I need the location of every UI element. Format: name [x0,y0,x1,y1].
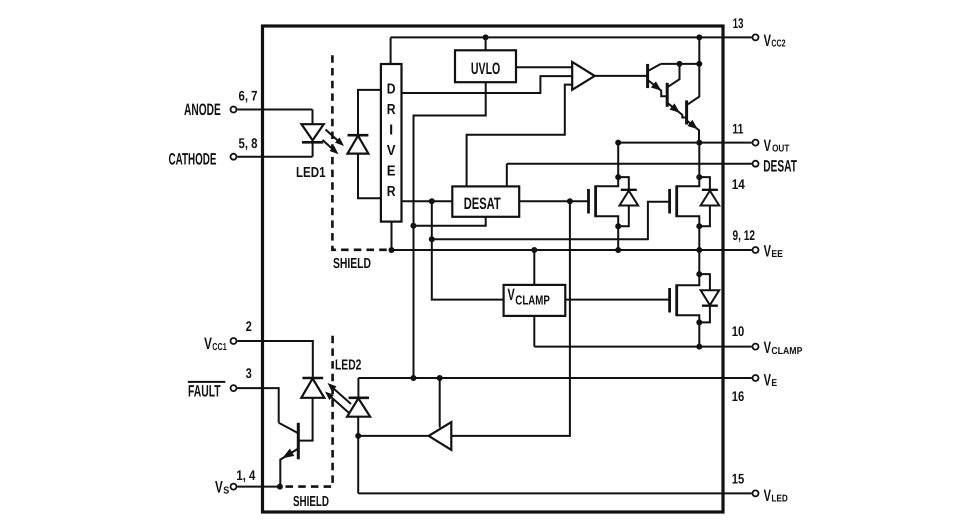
mosfet M2 [668,189,671,214]
node VE buffer2 tee [437,375,443,381]
pin VCC1 wire [237,341,312,378]
mosfet M1 [587,189,590,214]
node M2 drain [696,174,702,180]
photodiode PD2 [302,377,323,380]
svg-text:DESAT: DESAT [464,195,501,213]
svg-text:V: V [508,286,515,304]
wire VCLAMP out to M3 gate [565,299,669,301]
svg-text:V: V [764,32,771,50]
wire M1 source to VEE [617,226,619,250]
buffer U3 triangle [429,422,452,450]
svg-text:1, 4: 1, 4 [236,467,255,483]
wire VCC2 rail [391,36,752,38]
wire VCLAMP bottom riser [533,316,535,347]
buffer U2 triangle [572,62,595,90]
svg-text:D: D [387,82,396,98]
outer border frame [263,26,724,512]
svg-text:LED2: LED2 [335,358,361,374]
wire driver to buffer [402,76,573,93]
pin CATHODE wire [237,156,312,158]
LED2 light arrow 2 [331,397,349,413]
node collector rail A [677,61,683,67]
wire gate node long vertical to buffer2 [451,201,570,436]
wire VE to buffer2 top [439,378,441,428]
wire driver bottom riser [391,222,393,250]
wire buffer2 output to LED2 anode [358,435,429,437]
transistor Q2 [646,64,649,88]
LED2 [349,396,369,399]
pin 6,7 ANODE terminal [231,107,237,113]
node DESAT bottom tee [410,223,416,229]
wire M2 gate feed [432,202,670,240]
node collector rail B [696,61,702,67]
svg-text:LED1: LED1 [296,165,326,181]
svg-text:R: R [387,102,396,118]
svg-text:I: I [389,123,393,139]
svg-text:FAULT: FAULT [188,383,221,401]
node VEE M1 [615,247,621,253]
svg-text:16: 16 [732,388,745,404]
wire DESAT bottom [413,217,485,226]
Q2 emitter arrow [651,81,661,90]
Q3 emitter arrow [670,103,680,112]
transistor Q3 [666,83,669,107]
node clamp rail [696,344,702,350]
svg-text:6, 7: 6, 7 [239,87,258,103]
wire VCLAMP pin rail [534,346,752,348]
svg-text:5, 8: 5, 8 [239,135,258,151]
wire VEE rail [392,249,752,251]
pin 15 VLED terminal [753,490,759,496]
UVLO box [455,50,516,82]
wire VE rail [358,377,751,379]
node M1 drain [615,174,621,180]
pin 1,4 VS terminal [231,484,237,490]
wire Q4 emitter to VOUT node [698,143,700,178]
wire DESAT node vertical to VCLAMP input [432,201,504,299]
arrows [282,81,698,458]
wire VCLAMP top riser [533,250,535,285]
node VS emitter [277,484,283,490]
svg-text:CATHODE: CATHODE [169,150,217,168]
node M2 source [696,223,702,229]
node VOUT emitter [696,140,702,146]
wire M1 drain riser [617,143,619,178]
node VEE shield [389,247,395,253]
node M3 source [696,319,702,325]
wire VEE to M3 drain [698,250,700,274]
svg-text:E: E [771,378,777,389]
pin VS wire [237,486,280,488]
node VEE clamp riser [531,247,537,253]
wire driver to DESAT [402,200,453,202]
pin 11 VOUT terminal [753,140,759,146]
svg-text:E: E [387,164,396,180]
svg-text:V: V [764,242,771,260]
svg-text:13: 13 [733,15,744,31]
Q4 emitter arrow [687,120,697,129]
wire buffer lower corner to DESAT top [467,85,573,187]
pin 9,12 VEE terminal [753,247,759,253]
pin FAULT wire [237,388,278,423]
shield 2 dashed [280,336,333,487]
UVLO box riser [485,37,487,50]
overline FAULT [188,381,226,383]
svg-text:3: 3 [246,365,252,381]
wire driver top riser [390,37,392,64]
svg-text:14: 14 [732,176,745,192]
svg-text:V: V [204,335,212,353]
wire VCC2 drop to darlington [698,37,700,64]
svg-text:LED: LED [771,494,788,505]
svg-text:V: V [215,479,223,497]
wire LED2 anode to VLED rail [357,417,359,494]
Q1 emitter arrow [282,449,294,459]
node VEE M2 [696,247,702,253]
pin 10 VCLAMP terminal [753,344,759,350]
svg-text:UVLO: UVLO [471,60,501,78]
wire buffer output [595,75,648,77]
svg-text:15: 15 [732,470,745,486]
pin DESAT terminal [753,161,759,167]
node LED2 anode [355,433,361,439]
transistor Q1 [297,423,300,460]
node M3 drain [696,271,702,277]
svg-text:V: V [764,371,771,389]
svg-text:11: 11 [732,120,743,136]
svg-text:V: V [764,137,771,155]
pin 5,8 CATHODE terminal [231,154,237,160]
wire PD1 top bracket [358,90,381,135]
LED2 light arrow 1 [333,388,351,404]
node VE col tee [410,375,416,381]
mosfet M3 [668,288,671,313]
node UVLO/VCC2 [483,34,489,40]
svg-text:10: 10 [732,323,745,339]
driver U1 box [381,64,402,222]
pin 3 FAULT terminal [231,385,237,391]
pin circles [231,34,759,496]
LED2 top lead [357,378,359,398]
LED1 light arrow 1 [326,130,340,142]
node M1 gate tee [567,198,573,204]
svg-text:S: S [223,485,229,496]
svg-text:2: 2 [246,318,252,334]
pin 13 VCC2 terminal [753,34,759,40]
LED1 [312,110,314,125]
wire DESAT rail [507,163,752,165]
wire DESAT to M1 gate [519,200,588,202]
svg-text:V: V [764,487,771,505]
svg-text:ANODE: ANODE [184,101,221,119]
node M1 source [615,223,621,229]
svg-text:CC2: CC2 [771,39,786,50]
svg-text:SHIELD: SHIELD [333,256,371,272]
wire DESAT top riser [506,164,508,187]
node VCC2 drop [696,34,702,40]
pin 16 VE terminal [753,375,759,381]
shield 1 dashed [332,55,391,250]
svg-text:V: V [387,143,396,159]
transistor Q4 [685,100,688,124]
node DESAT input [429,198,435,204]
svg-text:CLAMP: CLAMP [515,292,550,307]
photodiode PD1 [348,134,369,137]
svg-text:OUT: OUT [772,144,789,155]
svg-text:EE: EE [771,249,783,260]
wire PD2 anode to Q1 base [299,398,312,441]
wire PD1 bottom bracket [358,154,381,199]
wire UVLO bottom down left column [414,82,486,378]
svg-text:9, 12: 9, 12 [733,227,756,243]
wire M2 source to VEE [698,226,700,250]
pin ANODE wire [237,109,312,111]
svg-text:V: V [764,339,771,357]
node VOUT corner [615,140,621,146]
wire VLED rail [358,492,752,494]
wire VOUT rail [618,142,752,144]
VCLAMP box [504,285,566,316]
svg-text:DESAT: DESAT [763,158,797,176]
wire M3 source to clamp rail [698,322,700,346]
svg-text:R: R [387,184,396,200]
LED1 light arrow 2 [323,140,334,150]
pin 2 VCC1 terminal [231,338,237,344]
node M2 gate feed tee [429,236,435,242]
svg-text:SHIELD: SHIELD [293,494,329,510]
DESAT box [452,186,519,216]
wire UVLO to buffer [516,66,572,68]
svg-text:CC1: CC1 [212,342,227,353]
svg-text:CLAMP: CLAMP [771,346,802,357]
